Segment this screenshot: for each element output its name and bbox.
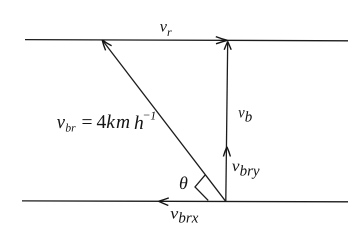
wire: vector v_br shaft (diagonal line)	[102, 40, 225, 201]
svg-text:v: v	[57, 112, 66, 133]
label v_b	[238, 105, 253, 126]
svg-text:km: km	[106, 112, 131, 133]
label v_br = 4km h^-1	[57, 108, 156, 135]
arrowhead of v_br (points up-left)	[102, 40, 111, 51]
svg-text:br: br	[65, 123, 76, 135]
label theta	[179, 173, 188, 193]
svg-text:b: b	[245, 110, 253, 126]
arrowhead of v_bry (points up)	[223, 147, 230, 157]
label v_brx	[170, 206, 198, 227]
svg-text:r: r	[167, 25, 172, 39]
arrowhead of v_r (points right)	[216, 37, 228, 44]
arrowhead of v_brx (points left)	[159, 198, 169, 206]
right-angle mark at foot of diagonal	[195, 175, 208, 201]
top river bank line	[25, 40, 348, 41]
label v_r	[160, 19, 172, 40]
svg-text:θ: θ	[179, 173, 188, 193]
svg-text:1: 1	[150, 108, 156, 122]
bottom river bank line	[22, 200, 348, 203]
svg-text:brx: brx	[178, 211, 198, 227]
svg-text:=: =	[82, 112, 93, 133]
wire: vector v_b shaft (vertical line)	[226, 41, 228, 201]
svg-text:−: −	[143, 108, 150, 122]
svg-text:bry: bry	[240, 164, 260, 180]
svg-text:4: 4	[97, 112, 107, 133]
arrowhead of v_b (points up)	[224, 42, 231, 50]
label v_bry	[232, 158, 260, 180]
